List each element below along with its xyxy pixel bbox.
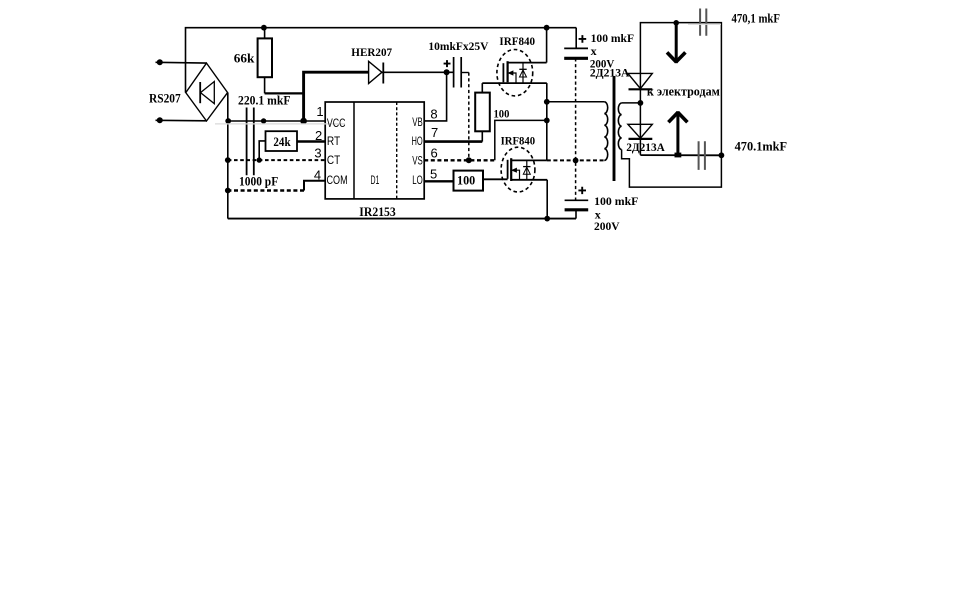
svg-text:1000 pF: 1000 pF [239, 175, 279, 189]
svg-text:1: 1 [316, 104, 323, 119]
svg-text:200V: 200V [594, 219, 620, 233]
svg-text:4: 4 [314, 168, 321, 183]
svg-text:D1: D1 [371, 173, 380, 187]
svg-text:IR2153: IR2153 [359, 205, 396, 219]
svg-text:24k: 24k [273, 135, 290, 149]
svg-text:8: 8 [430, 107, 437, 122]
svg-text:220.1 mkF: 220.1 mkF [238, 93, 291, 107]
svg-text:к электродам: к электродам [647, 85, 720, 99]
svg-text:VCC: VCC [327, 116, 346, 130]
svg-text:IRF840: IRF840 [501, 135, 536, 147]
svg-text:100 mkF: 100 mkF [594, 194, 638, 208]
svg-text:VB: VB [412, 115, 423, 129]
svg-text:7: 7 [431, 125, 438, 140]
svg-text:VS: VS [412, 153, 423, 167]
svg-text:2Д213А: 2Д213А [590, 65, 630, 79]
svg-text:6: 6 [431, 145, 438, 160]
svg-text:100: 100 [457, 174, 475, 188]
svg-text:RT: RT [327, 134, 341, 148]
svg-text:HER207: HER207 [351, 47, 392, 59]
svg-text:2: 2 [315, 128, 322, 143]
svg-text:10mkFx25V: 10mkFx25V [428, 41, 489, 53]
svg-text:470.1mkF: 470.1mkF [735, 139, 788, 153]
svg-text:2Д213А: 2Д213А [626, 140, 665, 154]
svg-text:IRF840: IRF840 [499, 36, 535, 48]
svg-text:CT: CT [327, 153, 341, 167]
svg-text:COM: COM [327, 173, 348, 187]
svg-text:LO: LO [412, 173, 423, 187]
svg-text:66k: 66k [234, 51, 255, 66]
svg-text:100: 100 [494, 107, 510, 121]
svg-text:3: 3 [314, 146, 321, 161]
svg-text:5: 5 [430, 167, 437, 182]
svg-text:HO: HO [412, 134, 423, 148]
svg-text:RS207: RS207 [149, 92, 181, 106]
svg-text:470,1 mkF: 470,1 mkF [732, 12, 781, 26]
svg-text:100 mkF: 100 mkF [591, 31, 635, 45]
